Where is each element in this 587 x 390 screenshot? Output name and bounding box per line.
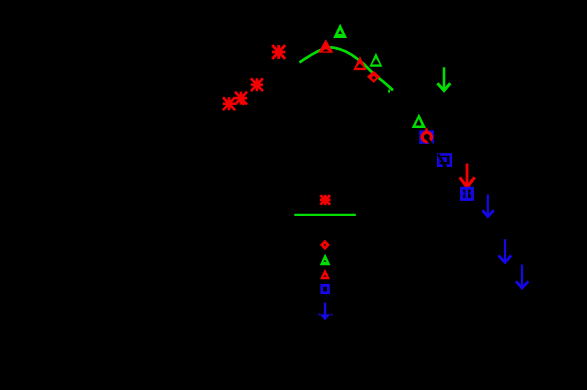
data point: red circle inside square 1 [422,132,431,141]
data point: green open triangle 1 [333,24,347,38]
data point: red open triangle 2 [353,56,366,70]
data point: red asterisk 3 [251,78,263,91]
upper limit: blue down arrow 2 [498,239,511,262]
data point: red asterisk 1 [223,97,235,110]
legend line: green horizontal [294,214,356,216]
data point: green open triangle 3 [412,114,426,128]
data point: red tick above square 1 [425,128,428,131]
data point: blue square 1 [419,130,434,144]
legend marker: red asterisk [320,195,331,205]
black notch at bottom of square 2 [443,164,446,167]
blue bar inside square 3 [465,190,468,199]
data point: green open triangle 2 [369,53,382,67]
data point: red asterisk stub overlap [239,100,244,105]
legend marker: blue open square [320,284,330,294]
upper limit: red down arrow [460,164,475,188]
blue ticks inside square 3 [463,192,465,194]
upper limit: blue down arrow 3 [516,265,529,288]
data point: blue square 3 [460,187,474,201]
upper limit: green down arrow [437,67,450,90]
data point: blue square 2 [437,153,452,167]
legend marker: blue down arrow with filled head [319,303,333,321]
data point: red open diamond 1 [367,71,380,83]
model curve: green line [300,47,394,90]
legend marker: red open diamond [320,240,330,251]
model curve end tick [388,90,391,93]
data point: red asterisk 2 [235,92,247,105]
black slash over square 2 [438,154,447,168]
data point: red open triangle 1 [318,39,333,53]
black slash over square 1 [428,139,435,147]
upper limit: blue down arrow 1 [482,194,494,216]
legend marker: green open triangle [320,254,331,266]
legend marker: red open triangle [320,269,330,280]
data point: red asterisk 4 [272,45,285,59]
